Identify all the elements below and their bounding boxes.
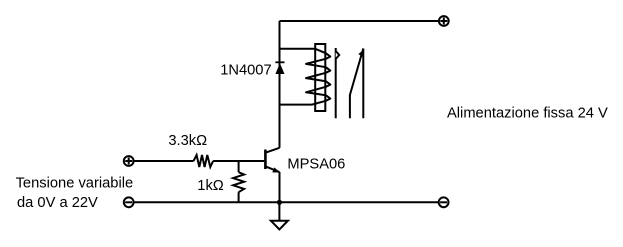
svg-text:MPSA06: MPSA06 <box>287 156 345 172</box>
svg-text:Alimentazione fissa 24 V: Alimentazione fissa 24 V <box>447 106 608 122</box>
svg-text:da 0V a 22V: da 0V a 22V <box>17 195 98 211</box>
svg-text:1N4007: 1N4007 <box>220 63 271 79</box>
svg-text:Tensione variabile: Tensione variabile <box>16 175 134 191</box>
svg-text:1kΩ: 1kΩ <box>197 178 224 194</box>
svg-text:3.3kΩ: 3.3kΩ <box>168 133 207 149</box>
